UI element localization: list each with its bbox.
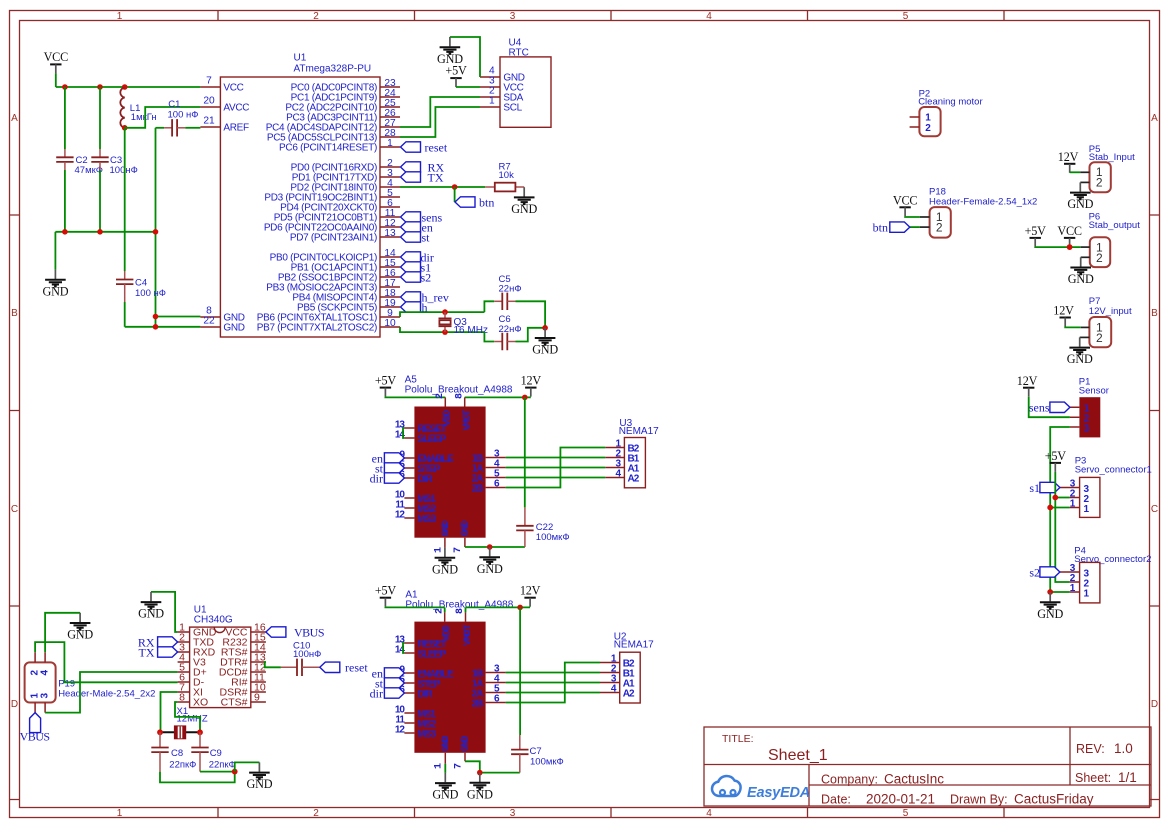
svg-text:SCL: SCL [503, 103, 522, 114]
svg-text:MS3: MS3 [418, 514, 437, 525]
svg-text:16 MHz: 16 MHz [454, 325, 488, 336]
svg-text:2B: 2B [472, 484, 484, 495]
right pin stubs [486, 458, 506, 488]
svg-text:A2: A2 [623, 689, 635, 700]
capacitor C6 [502, 333, 507, 350]
wire AREF-C1 down to gnd bus [155, 128, 157, 327]
svg-text:+5V: +5V [445, 64, 467, 78]
wire pin7 gnd [465, 546, 525, 548]
wire XO [175, 702, 200, 732]
pin VDD stub [444, 607, 446, 612]
wire +5V rail [1055, 472, 1069, 582]
svg-text:MS3: MS3 [418, 729, 437, 740]
right ruler ticks [1150, 215, 1160, 800]
svg-text:Servo_connector2: Servo_connector2 [1074, 554, 1151, 565]
svg-text:VMOT: VMOT [463, 624, 474, 645]
svg-text:4: 4 [706, 11, 712, 22]
svg-text:VBUS: VBUS [294, 626, 324, 640]
capacitor C22 [516, 526, 533, 531]
net flag reset [401, 142, 421, 152]
wire VCC down [55, 73, 57, 87]
svg-text:SLEEP: SLEEP [418, 434, 447, 445]
svg-text:3: 3 [510, 11, 516, 22]
capacitor C9 [199, 732, 201, 747]
ground [1037, 592, 1063, 621]
ground [42, 270, 68, 299]
wire pin8 gnd [156, 316, 201, 318]
svg-text:C1: C1 [168, 99, 180, 110]
svg-text:VCC: VCC [1057, 224, 1082, 238]
svg-text:ATmega328P-PU: ATmega328P-PU [294, 64, 372, 75]
wire pin1 gnd [151, 592, 178, 632]
net flag +5V [450, 78, 461, 87]
ground pin1 [432, 773, 458, 802]
ground pin1 [432, 548, 458, 577]
resistor R7 [485, 186, 524, 188]
svg-text:s1: s1 [1029, 481, 1040, 495]
crystal X1 [160, 731, 200, 733]
net flag sens [1050, 402, 1070, 412]
wire pin9 [400, 312, 484, 317]
svg-text:XO: XO [193, 697, 208, 709]
EasyEDA logo [712, 776, 810, 801]
svg-text:B: B [1151, 308, 1158, 319]
svg-text:AREF: AREF [223, 123, 249, 134]
svg-text:5: 5 [903, 808, 909, 819]
svg-text:VCC: VCC [223, 83, 243, 94]
wire 12V to pin2 [1029, 397, 1070, 418]
right pin stubs [380, 87, 400, 327]
svg-text:12V: 12V [1053, 304, 1074, 318]
svg-text:B: B [11, 308, 18, 319]
net flag +5V [1030, 238, 1041, 247]
svg-text:Header-Male-2.54_2x2: Header-Male-2.54_2x2 [58, 688, 155, 699]
capacitor C8 [159, 732, 161, 747]
net flag 12V [1064, 164, 1075, 173]
wire C4 branch [124, 128, 126, 271]
pin2 to ground [1081, 256, 1090, 258]
svg-text:Sheet:: Sheet: [1075, 771, 1111, 785]
net flag dir [401, 252, 421, 262]
wire pin10 [400, 327, 484, 332]
A4988 body [414, 407, 485, 538]
svg-text:22нФ: 22нФ [499, 284, 522, 295]
svg-text:VBUS: VBUS [20, 730, 50, 744]
wire 12V to pin1 [1070, 171, 1081, 173]
wire pin3 to D+ [45, 672, 178, 713]
svg-text:SLEEP: SLEEP [418, 649, 447, 660]
wire C5 [484, 301, 494, 312]
svg-text:2: 2 [313, 808, 319, 819]
wire btn to pin2 [910, 226, 920, 228]
svg-text:GND: GND [223, 323, 244, 334]
svg-text:47мкФ: 47мкФ [75, 165, 103, 176]
svg-text:Sensor: Sensor [1079, 386, 1109, 397]
svg-text:2: 2 [1096, 176, 1103, 190]
svg-text:st: st [422, 230, 431, 244]
wire AVCC [125, 107, 201, 128]
ground pin7 [467, 773, 493, 802]
svg-text:U1: U1 [294, 53, 307, 64]
svg-text:s2: s2 [1029, 565, 1040, 579]
svg-text:DIR: DIR [418, 474, 434, 485]
ground [246, 762, 272, 791]
wire VMOT to 12V [465, 396, 531, 398]
net flag RX [158, 637, 178, 647]
wire to gnd [235, 762, 260, 771]
svg-text:2B: 2B [472, 699, 484, 710]
svg-text:2: 2 [1096, 251, 1103, 265]
svg-text:C8: C8 [171, 748, 183, 759]
svg-text:Servo_connector1: Servo_connector1 [1075, 464, 1152, 475]
svg-text:Stab_output: Stab_output [1089, 220, 1141, 231]
wire SDA [400, 97, 480, 127]
wire 2B to B2 [506, 663, 600, 703]
wire VCC to pin1 [905, 215, 920, 218]
svg-text:REV:: REV: [1076, 742, 1105, 756]
svg-text:2: 2 [313, 11, 319, 22]
bottom pin stubs [445, 538, 465, 548]
svg-text:1: 1 [1084, 588, 1090, 599]
svg-text:dir: dir [370, 471, 383, 485]
svg-text:1: 1 [387, 138, 393, 149]
svg-text:A2: A2 [628, 474, 640, 485]
wire SCL [400, 107, 480, 137]
net flag +5V [380, 388, 391, 397]
svg-text:GND: GND [441, 520, 452, 536]
wire pin2 [1055, 497, 1069, 499]
net flag s1 [1040, 482, 1060, 492]
left pin stubs [404, 643, 414, 733]
capacitor C4 [116, 280, 133, 285]
wire pin7 gnd [465, 761, 520, 772]
svg-text:PB7 (PCINT7XTAL2TOSC2): PB7 (PCINT7XTAL2TOSC2) [257, 323, 377, 334]
svg-text:Company:: Company: [821, 773, 878, 787]
svg-text:2: 2 [936, 221, 943, 235]
svg-text:DIR: DIR [418, 689, 434, 700]
top ruler ticks [218, 11, 1004, 21]
net flag VCC [1064, 238, 1075, 247]
pin2 to ground [1080, 336, 1090, 338]
wire pin2 to D- [35, 642, 178, 682]
pin VMOT stub [465, 607, 467, 612]
wire AREF left [156, 127, 165, 129]
svg-text:VCC: VCC [44, 50, 69, 64]
wire +5V/VCC to pin1 [1035, 246, 1081, 248]
svg-text:sens: sens [1029, 401, 1050, 415]
net flag btn [890, 222, 910, 232]
left pin stubs [200, 87, 220, 327]
wire 12V down [519, 607, 521, 735]
svg-text:13: 13 [384, 228, 396, 239]
svg-text:s2: s2 [421, 270, 432, 284]
wire pin3 gnd rail [1050, 427, 1070, 592]
right pin stubs [251, 632, 266, 702]
IC U1 ATmega328P-PU body [220, 77, 380, 337]
svg-text:A: A [1151, 113, 1158, 124]
svg-text:10: 10 [384, 318, 396, 329]
wire 12V down [524, 397, 526, 507]
capacitor C1 [172, 119, 177, 136]
ground [437, 37, 463, 66]
net flag s1 [401, 262, 421, 272]
svg-text:+5V: +5V [375, 373, 397, 387]
svg-text:GND: GND [461, 735, 472, 751]
svg-text:+5V: +5V [1045, 449, 1067, 463]
wire U4 gnd [450, 37, 480, 77]
net flag s2 [401, 272, 421, 282]
svg-text:VCC: VCC [893, 194, 918, 208]
ground [138, 592, 164, 621]
svg-text:1мкГн: 1мкГн [131, 112, 157, 123]
capacitor C5 [502, 293, 507, 310]
svg-text:VMOT: VMOT [462, 409, 473, 430]
net flag sens [401, 212, 421, 222]
wire C3 top [99, 87, 101, 149]
svg-text:dir: dir [370, 686, 383, 700]
svg-text:100мкФ: 100мкФ [536, 532, 570, 543]
svg-text:22: 22 [203, 315, 215, 326]
wire btn drop [454, 187, 456, 202]
svg-text:100мкФ: 100мкФ [530, 757, 564, 768]
svg-text:3: 3 [39, 693, 50, 699]
wire pin13 reset [265, 662, 281, 667]
pin2 to ground [1080, 181, 1089, 183]
net flag en [401, 222, 421, 232]
pin VDD stub [444, 397, 446, 406]
svg-text:12: 12 [395, 510, 406, 521]
svg-text:TX: TX [428, 171, 444, 185]
svg-text:22нФ: 22нФ [499, 324, 522, 335]
svg-text:1: 1 [117, 808, 123, 819]
right pin stubs [486, 673, 506, 703]
left pin stubs [404, 428, 414, 518]
svg-text:10k: 10k [499, 170, 515, 181]
svg-text:1: 1 [489, 95, 495, 106]
bottom pin stubs [445, 753, 465, 764]
pin stubs [35, 652, 45, 712]
svg-text:1: 1 [1084, 504, 1090, 515]
wire gnd stem [54, 232, 56, 270]
ground [67, 613, 93, 642]
svg-text:C7: C7 [530, 746, 542, 757]
svg-text:12V: 12V [520, 584, 541, 598]
svg-text:EasyEDA: EasyEDA [747, 785, 810, 801]
wire pin1 drop [444, 764, 446, 773]
svg-text:CactusInc: CactusInc [884, 772, 944, 787]
capacitor C7 [511, 750, 528, 755]
net flag 12V [1023, 388, 1034, 397]
svg-text:12: 12 [395, 725, 406, 736]
title block [704, 727, 1151, 807]
svg-text:12V: 12V [1017, 374, 1038, 388]
net flag en [384, 668, 404, 678]
svg-text:1: 1 [433, 547, 444, 553]
svg-text:1: 1 [925, 112, 931, 123]
svg-text:D: D [11, 699, 18, 710]
svg-text:2: 2 [925, 123, 931, 134]
svg-text:100нФ: 100нФ [293, 649, 321, 660]
svg-text:9: 9 [254, 691, 260, 703]
svg-text:8: 8 [179, 691, 185, 703]
svg-text:2020-01-21: 2020-01-21 [866, 792, 935, 807]
svg-text:4: 4 [39, 670, 50, 676]
svg-text:100 нФ: 100 нФ [135, 288, 166, 299]
net flag TX [158, 647, 178, 657]
net flag 12V [1060, 318, 1071, 327]
wire +5V to VCC [456, 86, 480, 88]
svg-text:Pololu_Breakout_A4988: Pololu_Breakout_A4988 [405, 385, 513, 396]
svg-text:Cleaning motor: Cleaning motor [918, 97, 982, 108]
net flag 12V [525, 388, 536, 397]
net flag RX [401, 162, 421, 172]
svg-text:5: 5 [903, 11, 909, 22]
wire pin1 [1050, 507, 1069, 509]
svg-text:7: 7 [453, 763, 464, 769]
svg-text:PC6 (PCINT14RESET): PC6 (PCINT14RESET) [279, 143, 377, 154]
net flag s2 [1040, 567, 1060, 577]
ground pin7 [477, 547, 503, 576]
svg-text:reset: reset [425, 140, 448, 154]
net flag VBUS [266, 627, 286, 637]
svg-text:+5V: +5V [375, 584, 397, 598]
wire +5V to VDD [385, 606, 444, 609]
svg-text:GND: GND [460, 520, 471, 536]
wire VCC bus [56, 86, 201, 88]
svg-text:100 нФ: 100 нФ [168, 110, 199, 121]
svg-text:22пкФ: 22пкФ [169, 759, 196, 770]
svg-text:12V_input: 12V_input [1089, 306, 1132, 317]
notch [214, 627, 225, 633]
svg-text:Drawn By:: Drawn By: [950, 793, 1008, 807]
net flag en [384, 453, 404, 463]
wire 2A to A2 [506, 692, 600, 694]
wire 2B to B2 [506, 448, 606, 488]
net flag 12V [524, 598, 535, 607]
capacitor C3 [91, 157, 108, 162]
capacitor C10 [297, 659, 302, 676]
svg-text:1: 1 [434, 763, 445, 769]
svg-text:D: D [1151, 699, 1158, 710]
svg-text:2: 2 [1096, 331, 1103, 345]
svg-text:20: 20 [203, 95, 215, 106]
svg-text:btn: btn [873, 220, 888, 234]
wire RESET-SLEEP bracket [403, 643, 404, 653]
wire C2 top [64, 87, 66, 149]
svg-text:4: 4 [706, 808, 712, 819]
svg-text:NEMA17: NEMA17 [619, 426, 659, 437]
net flag VBUS [30, 713, 41, 733]
svg-text:1: 1 [117, 11, 123, 22]
svg-text:12V: 12V [1058, 150, 1079, 164]
wire XI [161, 692, 178, 732]
net flag +5V [1050, 463, 1061, 472]
svg-text:100нФ: 100нФ [110, 165, 138, 176]
A4988 body [414, 622, 485, 753]
net flag st [401, 232, 421, 242]
svg-text:TX: TX [139, 646, 155, 660]
svg-text:C9: C9 [210, 748, 222, 759]
bottom ruler ticks [218, 808, 1004, 818]
net flag h [401, 302, 421, 312]
svg-text:12V: 12V [521, 373, 542, 387]
svg-text:AVCC: AVCC [223, 103, 249, 114]
left pin stubs [178, 632, 190, 702]
svg-text:NEMA17: NEMA17 [614, 640, 654, 651]
ground at R7 [511, 187, 537, 216]
wire pin22 gnd [125, 326, 201, 328]
capacitor C2 [56, 157, 73, 162]
svg-text:22пкФ: 22пкФ [209, 759, 236, 770]
wire VMOT to 12V [466, 606, 531, 608]
net flag reset [320, 662, 340, 672]
net flag st [384, 678, 404, 688]
wire C6 [484, 332, 494, 341]
svg-text:A: A [11, 113, 18, 124]
svg-text:+5V: +5V [1025, 224, 1047, 238]
svg-text:Header-Female-2.54_1x2: Header-Female-2.54_1x2 [929, 196, 1037, 207]
net flag dir [384, 688, 404, 698]
left ruler ticks [10, 215, 20, 800]
svg-text:C: C [1151, 504, 1158, 515]
net flag btn [455, 197, 475, 207]
wire pin1 gnd [1050, 591, 1069, 593]
wire +5V to VDD [385, 396, 445, 399]
svg-text:1/1: 1/1 [1118, 770, 1137, 785]
wire pin4 to gnd [45, 613, 80, 653]
wire 12V to pin1 [1065, 326, 1081, 329]
pin VMOT stub [464, 397, 466, 406]
wire PD2 [400, 186, 485, 188]
wire 2A to A2 [506, 477, 606, 479]
svg-text:12MHZ: 12MHZ [177, 714, 208, 725]
svg-text:1.0: 1.0 [1114, 741, 1133, 756]
wire 1A to A1 [506, 682, 600, 684]
svg-text:TITLE:: TITLE: [722, 733, 754, 745]
svg-text:CactusFriday: CactusFriday [1014, 792, 1094, 807]
svg-text:21: 21 [203, 115, 215, 126]
svg-text:C: C [11, 504, 18, 515]
svg-text:Date:: Date: [821, 793, 851, 807]
svg-text:7: 7 [453, 547, 464, 553]
wire gnd bus [55, 231, 155, 233]
inductor L1 [120, 87, 124, 127]
junction dots [62, 84, 68, 90]
wire 1B to B1 [506, 672, 600, 674]
svg-text:GND: GND [441, 735, 452, 751]
wire RESET-SLEEP bracket [403, 428, 404, 438]
net flag TX [401, 172, 421, 182]
svg-text:7: 7 [206, 75, 212, 86]
net flag VCC [50, 64, 61, 73]
wire 1A to A1 [506, 467, 606, 469]
svg-text:Sheet_1: Sheet_1 [768, 747, 828, 764]
net flag dir [384, 473, 404, 483]
net flag h_rev [401, 292, 421, 302]
net flag st [384, 463, 404, 473]
svg-text:CH340G: CH340G [194, 615, 233, 626]
wire 1B to B1 [506, 457, 606, 459]
svg-text:C4: C4 [135, 278, 147, 289]
net flag VCC [899, 207, 910, 216]
ground [532, 328, 558, 357]
svg-text:3: 3 [510, 808, 516, 819]
crystal Q3 [444, 312, 446, 332]
svg-text:btn: btn [479, 195, 494, 209]
svg-text:CTS#: CTS# [221, 697, 248, 709]
svg-text:reset: reset [345, 661, 368, 675]
net flag +5V [380, 598, 391, 607]
